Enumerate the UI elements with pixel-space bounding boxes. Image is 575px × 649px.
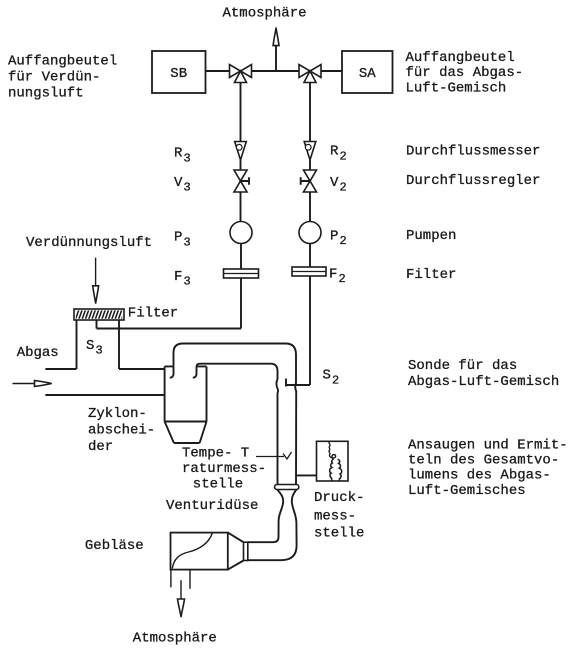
svg-text:für Verdün-: für Verdün-	[8, 70, 100, 86]
svg-text:Sonde für das: Sonde für das	[408, 358, 517, 374]
svg-text:Filter: Filter	[128, 305, 178, 321]
svg-text:2: 2	[332, 373, 339, 387]
svg-text:Venturidüse: Venturidüse	[166, 498, 258, 514]
svg-text:Luft-Gemisch: Luft-Gemisch	[406, 81, 507, 97]
svg-text:stelle: stelle	[193, 477, 243, 493]
svg-text:Auffangbeutel: Auffangbeutel	[406, 50, 515, 66]
svg-text:Druck-: Druck-	[314, 490, 364, 506]
svg-text:2: 2	[339, 272, 346, 286]
svg-text:R: R	[174, 146, 183, 162]
svg-text:S: S	[323, 368, 331, 384]
svg-text:nungsluft: nungsluft	[8, 86, 84, 102]
svg-text:Filter: Filter	[406, 267, 456, 283]
svg-text:Abgas-Luft-Gemisch: Abgas-Luft-Gemisch	[408, 374, 559, 390]
svg-text:der: der	[88, 439, 113, 455]
svg-text:SA: SA	[359, 66, 376, 82]
svg-text:lumens des Abgas-: lumens des Abgas-	[408, 468, 551, 484]
svg-text:P: P	[174, 230, 182, 246]
svg-text:für das Abgas-: für das Abgas-	[406, 65, 524, 81]
svg-text:Ansaugen und Ermit-: Ansaugen und Ermit-	[408, 438, 568, 454]
svg-text:raturmess-: raturmess-	[182, 461, 266, 477]
svg-text:V: V	[174, 175, 183, 191]
svg-text:mess-: mess-	[314, 508, 356, 524]
svg-text:Luft-Gemisches: Luft-Gemisches	[408, 483, 526, 499]
svg-text:3: 3	[184, 235, 191, 249]
svg-text:Verdünnungsluft: Verdünnungsluft	[26, 235, 152, 251]
svg-text:stelle: stelle	[314, 525, 364, 541]
svg-text:Durchflussregler: Durchflussregler	[406, 173, 540, 189]
svg-text:3: 3	[184, 151, 191, 165]
svg-text:Gebläse: Gebläse	[85, 538, 144, 554]
svg-text:V: V	[330, 175, 339, 191]
svg-text:F: F	[174, 269, 182, 285]
svg-text:Atmosphäre: Atmosphäre	[223, 5, 307, 21]
svg-text:Auffangbeutel: Auffangbeutel	[8, 54, 117, 70]
svg-text:3: 3	[184, 275, 191, 289]
svg-text:2: 2	[340, 180, 347, 194]
svg-text:3: 3	[184, 180, 191, 194]
svg-text:F: F	[329, 267, 337, 283]
svg-text:Atmosphäre: Atmosphäre	[133, 630, 217, 646]
svg-text:abschei-: abschei-	[88, 422, 155, 438]
svg-text:Abgas: Abgas	[17, 345, 59, 361]
svg-text:Pumpen: Pumpen	[406, 228, 456, 244]
svg-text:R: R	[330, 144, 339, 160]
svg-text:Zyklon-: Zyklon-	[88, 406, 147, 422]
svg-text:SB: SB	[170, 66, 187, 82]
svg-text:P: P	[330, 229, 338, 245]
svg-text:S: S	[86, 338, 94, 354]
svg-text:Tempe- T: Tempe- T	[182, 445, 249, 461]
svg-text:teln des Gesamtvo-: teln des Gesamtvo-	[408, 453, 559, 469]
svg-text:2: 2	[340, 149, 347, 163]
svg-text:3: 3	[96, 344, 103, 358]
svg-text:2: 2	[340, 234, 347, 248]
svg-text:Durchflussmesser: Durchflussmesser	[406, 143, 540, 159]
